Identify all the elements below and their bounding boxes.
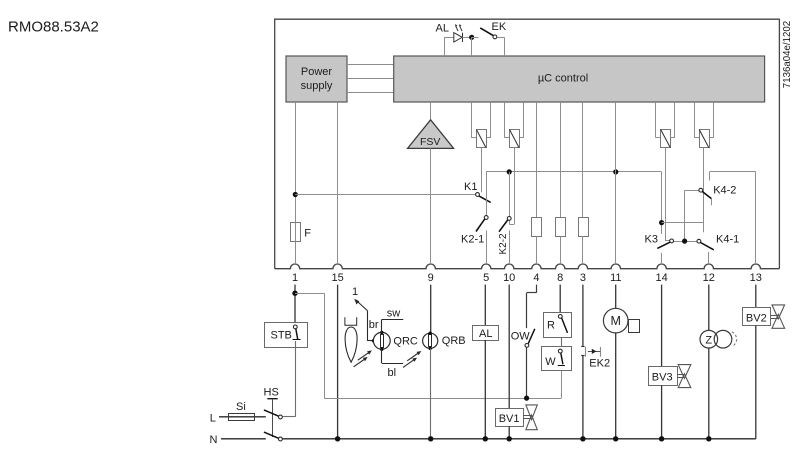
svg-text:AL: AL (479, 328, 492, 340)
burner motor M (603, 285, 639, 442)
svg-text:10: 10 (503, 272, 515, 284)
svg-text:R: R (547, 319, 555, 331)
svg-text:µC control: µC control (538, 72, 588, 84)
svg-text:5: 5 (483, 272, 489, 284)
wire: R to W (561, 337, 563, 347)
svg-text:STB: STB (271, 330, 292, 342)
LED AL (alarm lamp) (436, 23, 463, 43)
wire: W to line rail (561, 371, 563, 398)
svg-text:AL: AL (436, 23, 449, 35)
flame signal amplifier FSV (408, 102, 454, 148)
wire: K4-2 feed riser (684, 190, 686, 241)
wire: terminal 12 stub (708, 252, 710, 264)
node: 15/N junction (335, 436, 340, 441)
resistor terminal 4 input (532, 102, 542, 264)
svg-text:BV3: BV3 (652, 372, 673, 384)
limit thermostat W (542, 347, 572, 371)
wire: terminal 1 inside (power supply to bump) (295, 102, 297, 264)
node: junction terminal 1 / K1 feed (293, 192, 298, 197)
wire: terminal 11 inside (615, 102, 617, 264)
wire: K4-2 feed horizontal (685, 190, 699, 192)
wire: terminal 15 inside (power supply to bump) (337, 102, 339, 264)
svg-text:3: 3 (580, 272, 586, 284)
svg-text:EK: EK (492, 21, 507, 33)
svg-text:L: L (210, 412, 216, 424)
contact K2-2 (498, 217, 511, 255)
enclosure bottom edge with terminal bumps (275, 264, 780, 269)
wire: FSV to terminal 9 (430, 148, 432, 264)
relay coil drive K2 (505, 102, 524, 225)
wire: HS output to STB riser (282, 416, 295, 418)
power supply unit (286, 56, 347, 102)
relay coil drive K4 (694, 102, 713, 232)
safety limit thermostat STB (265, 323, 308, 348)
svg-text:1: 1 (292, 272, 298, 284)
wire: L lead (219, 416, 266, 418)
svg-text:4: 4 (533, 272, 539, 284)
svg-text:Z: Z (705, 334, 712, 346)
svg-text:9: 9 (428, 272, 434, 284)
wire: LED to junction (462, 37, 472, 39)
svg-text:HS: HS (264, 386, 279, 398)
flame detector QRC assembly (345, 286, 418, 379)
svg-text:15: 15 (331, 272, 343, 284)
wire: relay bus (K1 output) (486, 172, 661, 216)
contact K4-1 (697, 234, 739, 250)
contact K4-2 (699, 184, 737, 205)
svg-text:QRC: QRC (393, 335, 418, 347)
wire: line rail (terminal 1 branch) (324, 398, 561, 400)
svg-text:QRB: QRB (442, 335, 466, 347)
wire: bus corner to terminal 14 branch (661, 172, 663, 234)
contact K1 (464, 181, 491, 203)
wire: terminal 14 stub (661, 253, 663, 264)
fuse F (291, 223, 312, 242)
alarm lamp unit AL (473, 285, 499, 442)
svg-text:11: 11 (610, 272, 621, 284)
pushbutton EK (480, 21, 507, 56)
svg-text:W: W (545, 356, 556, 368)
node: pivot rail junction (682, 239, 687, 244)
wire: terminal 10 stub (509, 230, 511, 264)
contact K3 (645, 234, 674, 249)
junction node at LED/EK (469, 35, 478, 56)
svg-text:14: 14 (655, 272, 667, 284)
contact K2-1 (461, 216, 488, 246)
remote reset button EK2 (580, 285, 610, 442)
wire: terminal 15 to neutral (337, 285, 339, 439)
svg-text:F: F (304, 227, 311, 239)
wire: N lead (221, 438, 266, 440)
node: terminal 1 branch junction (292, 291, 324, 399)
control thermostat R (544, 285, 572, 338)
microcontroller U1: uC control (394, 56, 765, 102)
svg-text:bl: bl (388, 367, 397, 379)
svg-text:sw: sw (387, 307, 401, 319)
svg-text:Si: Si (236, 401, 246, 413)
svg-text:br: br (369, 319, 379, 331)
svg-text:K2-1: K2-1 (461, 233, 484, 245)
svg-text:13: 13 (750, 272, 762, 284)
node: K3/K4 cross feed (659, 220, 703, 225)
svg-text:EK2: EK2 (589, 357, 610, 369)
svg-text:K4-1: K4-1 (716, 234, 739, 246)
wire: alarm LED branch left leg (445, 37, 454, 56)
node: bus to terminal 11 (613, 169, 618, 174)
wire: terminal 1 drop (294, 285, 296, 326)
svg-text:8: 8 (557, 272, 563, 284)
fuel valve BV3 (649, 285, 691, 442)
wire: terminal 13 bus (710, 172, 756, 265)
main switch HS (264, 386, 283, 441)
svg-text:K1: K1 (464, 181, 477, 193)
svg-text:7136a04e/1202: 7136a04e/1202 (782, 21, 793, 88)
wire: STB to HS (295, 341, 297, 417)
svg-text:12: 12 (703, 272, 715, 284)
svg-text:BV1: BV1 (499, 413, 520, 425)
relay coil drive K1 (471, 102, 491, 192)
svg-text:N: N (210, 434, 218, 446)
svg-text:FSV: FSV (420, 136, 440, 148)
svg-text:supply: supply (301, 80, 333, 92)
enclosure outline (top/left/right) (275, 19, 780, 269)
svg-text:K4-2: K4-2 (713, 184, 736, 196)
thermostat OW (511, 285, 537, 401)
wire: K3/K4-1 pivot rail (674, 241, 698, 243)
wire: power supply to uC control (3 lines) (347, 65, 394, 93)
resistor terminal 8 input (556, 102, 566, 264)
fuel valve BV2 (743, 285, 785, 439)
relay coil drive K3 (656, 102, 675, 241)
flame detector QRB (403, 285, 466, 442)
resistor terminal 3 input (579, 102, 589, 264)
node: bus to K2-2 branch (507, 169, 512, 216)
svg-text:RMO88.53A2: RMO88.53A2 (8, 19, 99, 36)
svg-text:M: M (610, 314, 620, 328)
wire: K1 feed line (295, 194, 475, 196)
svg-text:1: 1 (352, 286, 358, 298)
fuel valve BV1 (496, 285, 538, 442)
svg-text:OW: OW (511, 331, 531, 343)
svg-text:BV2: BV2 (746, 312, 767, 324)
wire: neutral rail N (282, 438, 755, 440)
svg-text:Power: Power (301, 66, 333, 78)
ignition transformer Z (700, 285, 737, 442)
fuse Si (229, 401, 255, 421)
svg-text:K2-2: K2-2 (498, 233, 509, 255)
wire: terminal 5 stub (486, 230, 488, 264)
svg-text:K3: K3 (645, 234, 658, 246)
